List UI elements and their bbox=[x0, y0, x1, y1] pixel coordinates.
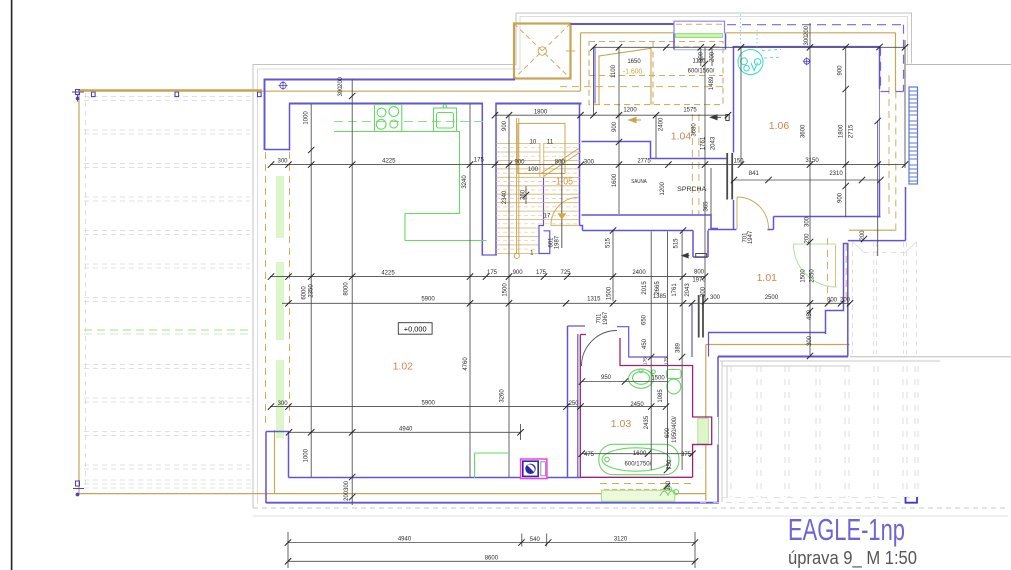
right terrace dashed plank verticals bbox=[731, 366, 918, 497]
dim arrow left wc bbox=[682, 253, 689, 257]
dimension texts rotated bbox=[302, 25, 867, 501]
dim vertical x810 bbox=[809, 23, 811, 355]
wall step at x264-289 bbox=[265, 149, 290, 151]
svg-text:4225: 4225 bbox=[382, 159, 396, 165]
svg-text:1967: 1967 bbox=[603, 311, 609, 325]
svg-text:1761: 1761 bbox=[700, 136, 706, 150]
bump hidden red dashed bbox=[674, 46, 722, 48]
upper right terrace bevel corners bbox=[853, 242, 918, 253]
svg-text:1761: 1761 bbox=[672, 283, 678, 297]
dim row Y2 bbox=[270, 276, 705, 278]
door arc corridor to 1.01 bbox=[737, 197, 769, 229]
svg-text:200: 200 bbox=[344, 490, 350, 501]
wall bath top-left stub bbox=[568, 325, 586, 327]
dim arrow left at sprcha top bbox=[711, 115, 722, 120]
pocket door dark bars corridor bbox=[699, 295, 703, 338]
dim vertical x352 bbox=[351, 80, 353, 478]
svg-text:1947: 1947 bbox=[748, 230, 754, 244]
stair treads solid tan bbox=[496, 144, 580, 254]
svg-text:EAGLE-1np: EAGLE-1np bbox=[788, 512, 905, 547]
window jamb light blue right terrace bbox=[718, 417, 720, 445]
tan arrow in 1.04 bbox=[629, 117, 641, 122]
svg-text:800: 800 bbox=[694, 270, 705, 276]
dim vertical x846 bbox=[845, 47, 847, 217]
terrace gray plank rows bbox=[84, 97, 252, 489]
svg-text:750: 750 bbox=[667, 459, 673, 470]
stairs left wall outer bbox=[481, 103, 483, 256]
window thin line east 1.06 bbox=[879, 89, 881, 182]
svg-text:389: 389 bbox=[675, 342, 681, 353]
svg-text:2400: 2400 bbox=[632, 270, 646, 276]
bath sink green bbox=[629, 369, 656, 388]
dim row Y6 bottom 4940-540-3120 bbox=[288, 542, 695, 544]
dim vertical x508 stairs upper part already bbox=[525, 186, 527, 204]
kitchen stove bbox=[375, 105, 402, 132]
svg-text:200: 200 bbox=[338, 76, 344, 87]
svg-text:3240: 3240 bbox=[462, 175, 468, 189]
svg-text:2043: 2043 bbox=[711, 136, 717, 150]
gray plot frame inner bbox=[258, 17, 908, 504]
bath walls magenta bbox=[580, 335, 711, 478]
stairs right wall mid bbox=[580, 226, 583, 231]
terrace anchor symbol top-left bbox=[72, 90, 84, 102]
svg-text:701: 701 bbox=[597, 313, 603, 324]
dim vertical x346 bottom 300 labels bbox=[351, 477, 353, 505]
wall bottom-left step bbox=[266, 431, 289, 433]
svg-text:900: 900 bbox=[612, 121, 618, 132]
left terrace outline tan bbox=[78, 90, 706, 495]
kitchen sink bbox=[434, 105, 457, 132]
svg-text:2350: 2350 bbox=[810, 269, 816, 283]
survey marker circle-cross left bbox=[279, 81, 288, 90]
dim row stairs 1800 bbox=[496, 114, 728, 116]
wall 1.02 right lower bbox=[577, 334, 579, 478]
svg-text:2043: 2043 bbox=[685, 283, 691, 297]
toilet green bbox=[667, 370, 682, 394]
svg-text:2775: 2775 bbox=[637, 159, 651, 165]
dim vertical x878 bbox=[877, 121, 879, 256]
wall bump left side bbox=[673, 34, 675, 50]
svg-text:300: 300 bbox=[277, 158, 288, 164]
dim vertical x682 bath bbox=[681, 232, 683, 471]
svg-text:1200: 1200 bbox=[660, 181, 666, 195]
svg-text:-1.05: -1.05 bbox=[553, 177, 573, 188]
svg-text:1600: 1600 bbox=[612, 173, 618, 187]
svg-text:1.04: 1.04 bbox=[671, 131, 692, 143]
main walls blue bbox=[265, 24, 881, 503]
dim vertical x705 bbox=[704, 47, 706, 301]
svg-text:200: 200 bbox=[840, 298, 851, 304]
wall corridor top right bbox=[708, 229, 737, 231]
svg-text:3120: 3120 bbox=[614, 537, 628, 543]
svg-text:515: 515 bbox=[605, 237, 611, 248]
svg-text:200: 200 bbox=[805, 233, 811, 244]
wall top terrace south 1.06 bbox=[848, 187, 906, 241]
wall 1.06 left upper bbox=[733, 47, 735, 153]
svg-text:1800: 1800 bbox=[839, 124, 845, 138]
kitchen counter dashed centerline bbox=[334, 121, 487, 123]
svg-text:725: 725 bbox=[560, 270, 571, 276]
svg-text:1500: 1500 bbox=[503, 283, 509, 297]
stairs right wall jog bbox=[539, 177, 550, 254]
dim vertical x619 bbox=[618, 47, 620, 214]
svg-text:1987: 1987 bbox=[555, 235, 561, 249]
tan line right of bath bbox=[705, 345, 707, 501]
svg-text:175: 175 bbox=[474, 157, 485, 163]
svg-text:3680: 3680 bbox=[692, 123, 698, 137]
svg-text:4940: 4940 bbox=[398, 537, 412, 543]
svg-text:175: 175 bbox=[487, 270, 498, 276]
stair walk line with arrow bbox=[561, 160, 563, 248]
upper floor outline dashed purple bbox=[727, 25, 904, 92]
svg-text:300: 300 bbox=[807, 335, 813, 346]
svg-text:2665: 2665 bbox=[655, 281, 661, 295]
svg-text:900: 900 bbox=[513, 270, 524, 276]
dim vertical x509 bbox=[508, 115, 510, 477]
svg-text:8600: 8600 bbox=[485, 555, 499, 561]
svg-text:3260: 3260 bbox=[500, 389, 506, 403]
svg-text:300: 300 bbox=[344, 480, 350, 491]
door arc bath bbox=[582, 331, 618, 367]
tan dashes inside bump bbox=[676, 23, 722, 25]
svg-text:2310: 2310 bbox=[829, 171, 843, 177]
svg-text:1315: 1315 bbox=[587, 297, 601, 303]
dim row Y3 bbox=[282, 302, 851, 304]
wall corridor right part bbox=[768, 229, 774, 231]
wall bump right side bbox=[725, 34, 727, 50]
pocket door top cap bbox=[726, 115, 729, 121]
svg-text:365: 365 bbox=[703, 201, 709, 212]
skylight box bbox=[514, 24, 575, 79]
svg-text:1.03: 1.03 bbox=[611, 418, 632, 430]
terrace left inner dashed vertical bbox=[85, 93, 87, 487]
svg-text:1.01: 1.01 bbox=[757, 272, 778, 284]
wall 1.06 top bbox=[733, 46, 881, 48]
stair gap column bbox=[540, 143, 544, 178]
roof overhang under 1.06 bbox=[849, 229, 896, 231]
dim vertical x741 bbox=[740, 47, 742, 164]
dim row 841-2310 bbox=[734, 179, 881, 181]
svg-text:540: 540 bbox=[530, 537, 541, 543]
pale green wall-strip segments bbox=[276, 176, 284, 438]
wall 1.06 bottom bbox=[774, 216, 881, 218]
svg-text:1100: 1100 bbox=[611, 64, 617, 78]
dimension lines dark bbox=[270, 23, 905, 568]
svg-text:900: 900 bbox=[502, 120, 508, 131]
wall corridor top bbox=[583, 230, 694, 232]
svg-text:2435: 2435 bbox=[644, 415, 650, 429]
svg-text:841: 841 bbox=[749, 171, 760, 177]
svg-text:1.06: 1.06 bbox=[769, 120, 790, 132]
tan vertical near house bottom-left bbox=[274, 430, 276, 494]
bath tub green bbox=[599, 444, 679, 474]
sauna top wall bbox=[582, 142, 728, 159]
door leaf pale green in bath east wall bbox=[698, 418, 709, 443]
svg-text:300: 300 bbox=[701, 286, 707, 297]
roof overhang right vertical solid bbox=[895, 33, 897, 92]
terrace bottom edge (continues under house) bbox=[78, 493, 706, 495]
stair diagonal break lines bbox=[541, 149, 579, 174]
green glazing bar top bump bbox=[676, 34, 723, 38]
svg-text:5900: 5900 bbox=[421, 297, 435, 303]
gray page rule right top bbox=[906, 64, 1011, 66]
svg-text:2715: 2715 bbox=[848, 124, 854, 138]
washing machine magenta bbox=[521, 459, 547, 479]
wall kitchen top a bbox=[289, 103, 482, 105]
svg-text:600/1560/: 600/1560/ bbox=[688, 69, 715, 75]
gray page rule right middle bbox=[850, 356, 1011, 358]
wall 1.01 east jog bbox=[826, 244, 848, 357]
svg-text:1575: 1575 bbox=[683, 107, 697, 113]
wall wc right bbox=[691, 304, 693, 357]
wall bath top blue part bbox=[617, 327, 668, 357]
dim vertical end bars bottom rows bbox=[287, 532, 289, 568]
svg-text:1500: 1500 bbox=[607, 286, 613, 300]
dimension texts horizontal bbox=[277, 59, 850, 562]
svg-text:800: 800 bbox=[555, 159, 566, 165]
svg-text:8000: 8000 bbox=[344, 282, 350, 296]
right terrace dashed bottom rows bbox=[700, 498, 918, 503]
svg-text:1950/400/: 1950/400/ bbox=[672, 416, 678, 443]
svg-text:300: 300 bbox=[584, 159, 595, 165]
wall 1.06 right lower bbox=[879, 182, 881, 218]
niche bottom bbox=[693, 256, 708, 258]
svg-text:1650: 1650 bbox=[627, 59, 641, 65]
kitchen peninsula green lines bbox=[405, 132, 487, 241]
svg-text:5900: 5900 bbox=[422, 401, 436, 407]
wall connector x708 bbox=[708, 333, 710, 357]
wall bottom interior bbox=[289, 477, 582, 479]
wall bottom-left exterior vertical bbox=[265, 432, 267, 504]
green entry mat bottom bbox=[601, 490, 674, 501]
wall top mid exterior bbox=[571, 23, 674, 25]
room number labels orange bbox=[393, 120, 790, 430]
svg-text:515: 515 bbox=[674, 238, 680, 249]
terrace fixing squares blue bbox=[92, 92, 262, 97]
svg-text:1000: 1000 bbox=[304, 111, 310, 125]
kitchen counter front edge bbox=[334, 131, 460, 133]
roof overhang top line bbox=[581, 32, 675, 34]
wall top-left exterior bbox=[265, 79, 516, 81]
gray bottom dashed rule bbox=[253, 507, 1005, 509]
tan dashed hidden overhang lines bbox=[560, 75, 896, 484]
svg-text:17: 17 bbox=[544, 214, 551, 220]
dim vertical x656 short bbox=[655, 115, 657, 158]
wall bottom exterior bbox=[266, 502, 719, 504]
niche sill dark rect bbox=[696, 254, 707, 258]
light blue bump outline bbox=[674, 21, 725, 33]
svg-text:100: 100 bbox=[528, 167, 539, 173]
svg-text:475: 475 bbox=[584, 452, 595, 458]
dim vertical x470 bbox=[469, 104, 471, 477]
svg-text:300: 300 bbox=[666, 480, 672, 491]
svg-text:2400: 2400 bbox=[659, 117, 665, 131]
stairs left wall inner bbox=[495, 103, 497, 256]
wall kitchen top b bbox=[496, 103, 582, 105]
svg-text:SAUNA: SAUNA bbox=[631, 179, 647, 185]
dim vertical end bar x520 bbox=[520, 424, 522, 440]
dimension slash ticks bbox=[268, 44, 908, 565]
wall step 1.06 to corridor bbox=[773, 217, 775, 230]
svg-text:900: 900 bbox=[838, 65, 844, 76]
stair upper flight outline bbox=[518, 123, 565, 173]
svg-text:4760: 4760 bbox=[463, 357, 469, 371]
svg-text:úprava 9_ M 1:50: úprava 9_ M 1:50 bbox=[788, 547, 917, 569]
stairs left wall cap bbox=[482, 254, 498, 256]
wall 1.01 bottom bbox=[708, 332, 826, 334]
page edge line left bbox=[11, 0, 13, 570]
svg-text:1000: 1000 bbox=[304, 448, 310, 462]
dim row Y1 bbox=[270, 164, 905, 166]
terrace top edge bbox=[78, 89, 262, 91]
green plants bottom right bbox=[660, 486, 679, 496]
dim row Y7 bottom 8600 bbox=[288, 560, 695, 562]
terrace left edge bbox=[78, 90, 80, 495]
svg-text:950: 950 bbox=[601, 375, 612, 381]
svg-text:900: 900 bbox=[838, 192, 844, 203]
stair rail verticals bbox=[517, 118, 519, 254]
terrace anchor symbol bottom-left bbox=[73, 481, 84, 496]
green counter line bottom 1.02 bbox=[475, 453, 509, 478]
survey marker circle-cross right bbox=[803, 57, 811, 65]
terrace green dashed row bbox=[84, 329, 252, 331]
wall west of right terrace lower bbox=[717, 445, 719, 503]
niche right bbox=[707, 231, 709, 258]
door arc stairs bottom bbox=[551, 197, 579, 225]
svg-text:1200: 1200 bbox=[623, 108, 637, 114]
svg-text:900: 900 bbox=[514, 159, 525, 165]
cyan boiler symbol bbox=[738, 14, 781, 75]
svg-text:SPRCHA: SPRCHA bbox=[677, 186, 707, 193]
svg-text:260: 260 bbox=[521, 189, 527, 200]
svg-text:11: 11 bbox=[547, 140, 554, 146]
svg-text:200: 200 bbox=[710, 51, 716, 62]
dim row 475-1600-375 bbox=[582, 453, 693, 455]
stair bottom circle bbox=[514, 253, 519, 258]
balcony window hatch right bbox=[909, 87, 918, 184]
svg-text:10: 10 bbox=[530, 140, 537, 146]
wall kitchen left pier bbox=[289, 104, 291, 151]
svg-text:175: 175 bbox=[664, 357, 669, 365]
svg-text:600/1750/: 600/1750/ bbox=[625, 462, 652, 468]
wall west of right terrace upper bbox=[717, 357, 719, 418]
1.04 tan ramp lines bbox=[599, 48, 651, 104]
svg-text:2450: 2450 bbox=[630, 402, 644, 408]
svg-text:1800: 1800 bbox=[534, 110, 548, 116]
dim vertical x613 wc bbox=[612, 231, 614, 302]
dim vertical x667 bath bbox=[667, 232, 669, 471]
svg-text:4940: 4940 bbox=[399, 427, 413, 433]
wall 1.06 right upper bbox=[879, 47, 881, 89]
svg-text:-1.600: -1.600 bbox=[623, 69, 643, 76]
blue bracket bottom right bbox=[906, 497, 918, 503]
dim short at sauna x711 bbox=[710, 168, 712, 215]
wall corridor left bbox=[567, 326, 569, 478]
svg-text:2015: 2015 bbox=[642, 281, 648, 295]
svg-text:450: 450 bbox=[807, 309, 813, 320]
dim vertical x651 bath bbox=[650, 232, 652, 471]
svg-text:1489: 1489 bbox=[709, 76, 715, 90]
roof overhang step up bbox=[580, 33, 582, 91]
svg-text:200: 200 bbox=[860, 230, 866, 241]
svg-text:300: 300 bbox=[699, 51, 705, 62]
svg-text:300: 300 bbox=[278, 401, 289, 407]
wall 1.06 left lower bbox=[733, 200, 735, 230]
upper wall thin x595 bbox=[594, 48, 596, 104]
svg-text:6000: 6000 bbox=[302, 286, 308, 300]
stair treads dashed tan bbox=[496, 148, 580, 249]
level box +0.000 bbox=[398, 323, 432, 335]
svg-text:+0,000: +0,000 bbox=[404, 324, 427, 333]
svg-text:450: 450 bbox=[642, 338, 648, 349]
dim vertical x701 x712 top short bbox=[700, 47, 702, 66]
gray plot frame outer bbox=[253, 13, 912, 508]
svg-text:300: 300 bbox=[827, 298, 838, 304]
dim vertical x311 bbox=[310, 104, 312, 477]
dim row Y4 bbox=[270, 406, 666, 408]
svg-text:3150: 3150 bbox=[805, 158, 819, 164]
svg-text:375: 375 bbox=[681, 452, 692, 458]
bump threshold light blue bbox=[674, 49, 726, 51]
roof overhang tan line upper-left bbox=[79, 33, 896, 501]
svg-text:175: 175 bbox=[536, 270, 547, 276]
svg-text:1600: 1600 bbox=[633, 451, 647, 457]
wall left exterior upper bbox=[264, 79, 266, 151]
upper right terrace gray dashed bbox=[853, 242, 917, 354]
dim vertical x594 top bbox=[593, 47, 595, 115]
gray bottom faint rule bbox=[253, 515, 1008, 517]
wall left interior lower bbox=[288, 432, 290, 478]
svg-text:1970: 1970 bbox=[692, 278, 706, 284]
dim vertical x905 bbox=[904, 40, 906, 168]
svg-text:1.02: 1.02 bbox=[393, 361, 414, 373]
svg-text:3600: 3600 bbox=[800, 124, 806, 138]
pocket door dark bars sprcha bbox=[727, 153, 732, 200]
svg-text:2340: 2340 bbox=[502, 190, 508, 204]
svg-text:175: 175 bbox=[643, 357, 648, 365]
svg-text:150: 150 bbox=[733, 159, 744, 165]
svg-text:200: 200 bbox=[804, 25, 810, 36]
wall south of 1.01 terrace bbox=[718, 356, 848, 358]
stairs right wall upper bbox=[579, 103, 581, 226]
dim row 950-1500 bbox=[582, 381, 668, 383]
svg-text:600: 600 bbox=[665, 427, 671, 438]
svg-text:4225: 4225 bbox=[381, 271, 395, 277]
svg-text:300: 300 bbox=[710, 295, 721, 301]
tan dashed vertical at kitchen wall bbox=[289, 152, 291, 428]
svg-text:1500: 1500 bbox=[801, 269, 807, 283]
sauna bottom wall bbox=[582, 215, 719, 229]
svg-text:2350: 2350 bbox=[309, 284, 315, 298]
dim row Y5 bbox=[289, 431, 521, 433]
svg-text:1500: 1500 bbox=[651, 376, 665, 382]
svg-text:650: 650 bbox=[642, 314, 648, 325]
niche left bbox=[692, 231, 694, 258]
right terrace gray frame bbox=[720, 361, 940, 502]
dim row Y0 top bbox=[593, 46, 905, 48]
tan dashed vertical inside wall zone bbox=[265, 152, 267, 428]
svg-text:2500: 2500 bbox=[765, 295, 779, 301]
1.04 tan dashed rectangle bbox=[589, 42, 723, 105]
svg-text:250: 250 bbox=[569, 401, 580, 407]
door arc 1.01 terrace green bbox=[793, 244, 836, 287]
svg-text:300: 300 bbox=[805, 216, 811, 227]
svg-text:1085: 1085 bbox=[658, 389, 664, 403]
